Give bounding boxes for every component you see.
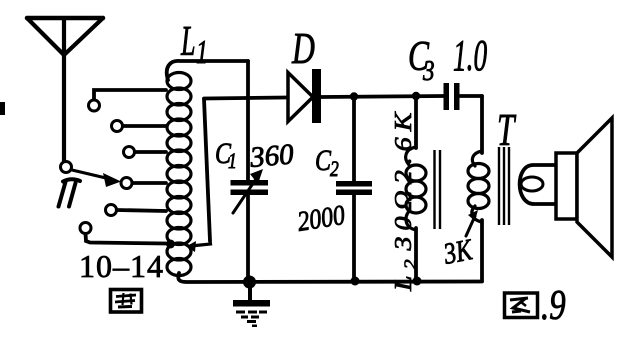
svg-text:2000: 2000 bbox=[295, 199, 347, 237]
svg-text:.9: .9 bbox=[541, 282, 566, 329]
svg-text:D: D bbox=[291, 25, 315, 73]
svg-text:1: 1 bbox=[228, 149, 237, 173]
svg-text:T: T bbox=[497, 104, 517, 155]
svg-text:L: L bbox=[180, 18, 195, 65]
svg-text:1: 1 bbox=[196, 34, 208, 71]
svg-text:10–14: 10–14 bbox=[79, 248, 164, 284]
svg-text:L230Ω2.6K: L230Ω2.6K bbox=[390, 107, 420, 293]
svg-text:3K: 3K bbox=[440, 232, 476, 270]
svg-text:1.0: 1.0 bbox=[453, 30, 487, 79]
svg-text:2: 2 bbox=[330, 157, 339, 181]
svg-text:3: 3 bbox=[422, 55, 434, 87]
svg-text:360: 360 bbox=[248, 138, 296, 174]
